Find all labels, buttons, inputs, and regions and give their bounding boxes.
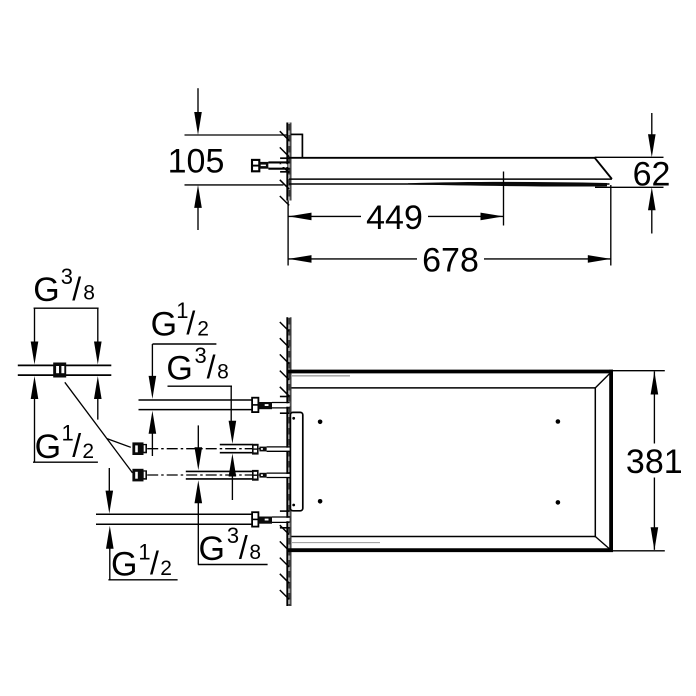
dim 678 xyxy=(288,185,611,266)
reference pipe (top-left G3/8) xyxy=(18,363,112,378)
label G3/8 middle xyxy=(166,343,232,425)
pipe P4 (bottom G1/2, plan) xyxy=(96,511,290,528)
pipe P3 (lower G3/8, plan) xyxy=(132,469,289,482)
svg-text:2: 2 xyxy=(160,557,172,580)
svg-text:2: 2 xyxy=(197,318,209,341)
leader line from fitting to middle fittings xyxy=(65,382,133,473)
svg-text:/: / xyxy=(72,271,81,307)
svg-text:3: 3 xyxy=(61,264,73,289)
dim 381 xyxy=(613,371,665,551)
P4 flange at wall xyxy=(280,510,290,512)
svg-text:/: / xyxy=(150,545,159,581)
svg-text:/: / xyxy=(239,530,248,566)
svg-text:G: G xyxy=(151,306,177,344)
svg-text:449: 449 xyxy=(366,199,423,237)
svg-text:8: 8 xyxy=(217,360,229,383)
dim 105 xyxy=(185,88,287,230)
wall hatch ticks (side view) xyxy=(280,131,289,205)
flange at wall xyxy=(280,157,290,159)
shower head profile (side view) xyxy=(289,157,612,186)
svg-text:3: 3 xyxy=(227,523,239,548)
svg-text:678: 678 xyxy=(422,241,479,279)
svg-text:8: 8 xyxy=(249,541,261,564)
wall hatch ticks (plan view) xyxy=(280,322,289,599)
inner frame (plan view) xyxy=(292,387,596,537)
svg-text:381: 381 xyxy=(626,443,683,481)
faint panel lines xyxy=(292,375,350,377)
wall (plan view) xyxy=(287,317,291,606)
left fitting F2 xyxy=(132,442,143,455)
nozzle holes xyxy=(318,420,323,425)
miter corners xyxy=(595,372,611,388)
plate screw dots xyxy=(292,417,295,420)
label G1/2 top-left xyxy=(33,421,98,466)
svg-text:G: G xyxy=(35,428,61,466)
svg-text:8: 8 xyxy=(83,282,95,305)
head outline (plan view) outer thick frame xyxy=(287,370,613,552)
svg-text:2: 2 xyxy=(82,440,94,463)
mounting plate (plan view) xyxy=(290,412,302,510)
pipe P1 (top G1/2, plan) xyxy=(139,397,290,414)
spray face dark band xyxy=(408,182,607,187)
svg-text:G: G xyxy=(166,350,192,388)
svg-text:/: / xyxy=(72,428,81,464)
dim 449 xyxy=(289,172,504,226)
svg-text:G: G xyxy=(111,546,137,584)
label G1/2 middle xyxy=(151,298,217,381)
svg-text:/: / xyxy=(186,305,195,341)
P1 flange at wall xyxy=(280,396,290,398)
svg-text:62: 62 xyxy=(633,156,671,194)
label G3/8 top-left xyxy=(33,264,98,346)
mounting bracket (side view) xyxy=(291,134,303,158)
svg-text:3: 3 xyxy=(195,343,207,368)
svg-text:1: 1 xyxy=(138,539,150,564)
label G1/2 bottom-left xyxy=(108,539,177,583)
wall (side view) xyxy=(287,123,291,201)
dim 62 xyxy=(595,113,664,234)
inlet fitting (side view) xyxy=(252,158,290,172)
svg-text:G: G xyxy=(199,530,225,568)
svg-text:/: / xyxy=(207,349,216,385)
label G3/8 bottom-middle xyxy=(198,500,268,569)
left fitting F3 xyxy=(132,469,143,482)
svg-text:G: G xyxy=(33,271,59,309)
pipe P2 (upper G3/8, plan) xyxy=(132,442,289,455)
svg-text:105: 105 xyxy=(168,142,225,180)
